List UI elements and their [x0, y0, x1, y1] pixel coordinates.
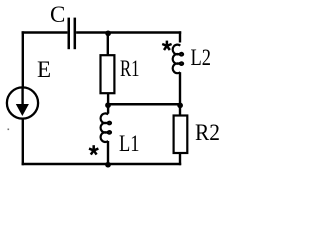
svg-text:L1: L1 [119, 131, 140, 156]
svg-text:L2: L2 [191, 45, 212, 70]
svg-text:R2: R2 [195, 120, 220, 145]
svg-text:E: E [37, 57, 51, 82]
svg-text:R1: R1 [120, 56, 140, 81]
svg-text:C: C [50, 2, 65, 27]
